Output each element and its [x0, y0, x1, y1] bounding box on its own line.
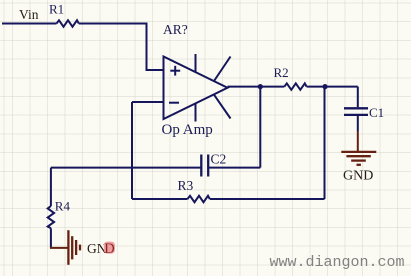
wire - input down to R3 row — [131, 102, 133, 199]
ground GND symbol under C1 — [341, 152, 376, 165]
wire C2 right segment — [208, 167, 260, 169]
wire - input stub — [132, 101, 164, 103]
wire op-amp output to R2 — [228, 86, 285, 88]
ground GND pin at R4 — [50, 247, 68, 249]
power net label GND left — [87, 241, 115, 257]
svg-text:Vin: Vin — [19, 7, 39, 22]
svg-text:R3: R3 — [178, 178, 194, 193]
svg-text:R4: R4 — [55, 199, 71, 214]
wire R4 bottom — [50, 228, 52, 248]
svg-text:GND: GND — [343, 169, 373, 184]
op-amp upper offset pin — [214, 57, 231, 82]
svg-text:AR?: AR? — [163, 22, 188, 37]
wire Vin input to R1 and corner — [2, 23, 57, 25]
op-amp plus symbol — [170, 66, 180, 76]
capacitor C2 plates — [201, 155, 208, 177]
wire feedback node down — [259, 87, 261, 168]
resistor R2 — [284, 83, 306, 89]
op-amp lower offset pin — [214, 95, 231, 119]
wire R1 to op-amp + input — [79, 24, 164, 71]
resistor R4 — [48, 206, 54, 228]
junction node at R2 output — [322, 84, 327, 89]
wire R3 to right riser — [210, 198, 325, 200]
ground GND pin under C1 — [357, 131, 359, 151]
svg-text:Op Amp: Op Amp — [162, 122, 213, 138]
svg-text:www.diangon.com: www.diangon.com — [270, 254, 405, 271]
ground GND symbol at R4 — [68, 230, 80, 265]
op-amp bottom power pin — [195, 103, 197, 121]
op-amp minus symbol — [169, 102, 179, 104]
svg-text:D: D — [104, 241, 114, 257]
op-amp AR? triangle — [164, 57, 228, 120]
svg-text:R1: R1 — [49, 2, 64, 17]
resistor R3 — [188, 196, 210, 202]
wire down to capacitor C1 — [357, 87, 359, 108]
svg-text:C1: C1 — [369, 105, 384, 120]
resistor R1 — [57, 20, 79, 26]
capacitor C1 plates — [344, 108, 368, 115]
wire C2 left segment to R4 — [51, 167, 201, 169]
wire riser from R2 output node down to R3 — [324, 87, 326, 199]
wire R2 to C1 branch — [307, 86, 358, 88]
op-amp top power pin — [195, 54, 197, 73]
svg-text:C2: C2 — [211, 152, 227, 167]
svg-text:R2: R2 — [274, 65, 289, 80]
wire C1 bottom stub — [357, 116, 359, 131]
wire R3 row left segment — [132, 198, 188, 200]
wire R4 top — [50, 168, 52, 206]
junction node at feedback — [258, 84, 263, 89]
